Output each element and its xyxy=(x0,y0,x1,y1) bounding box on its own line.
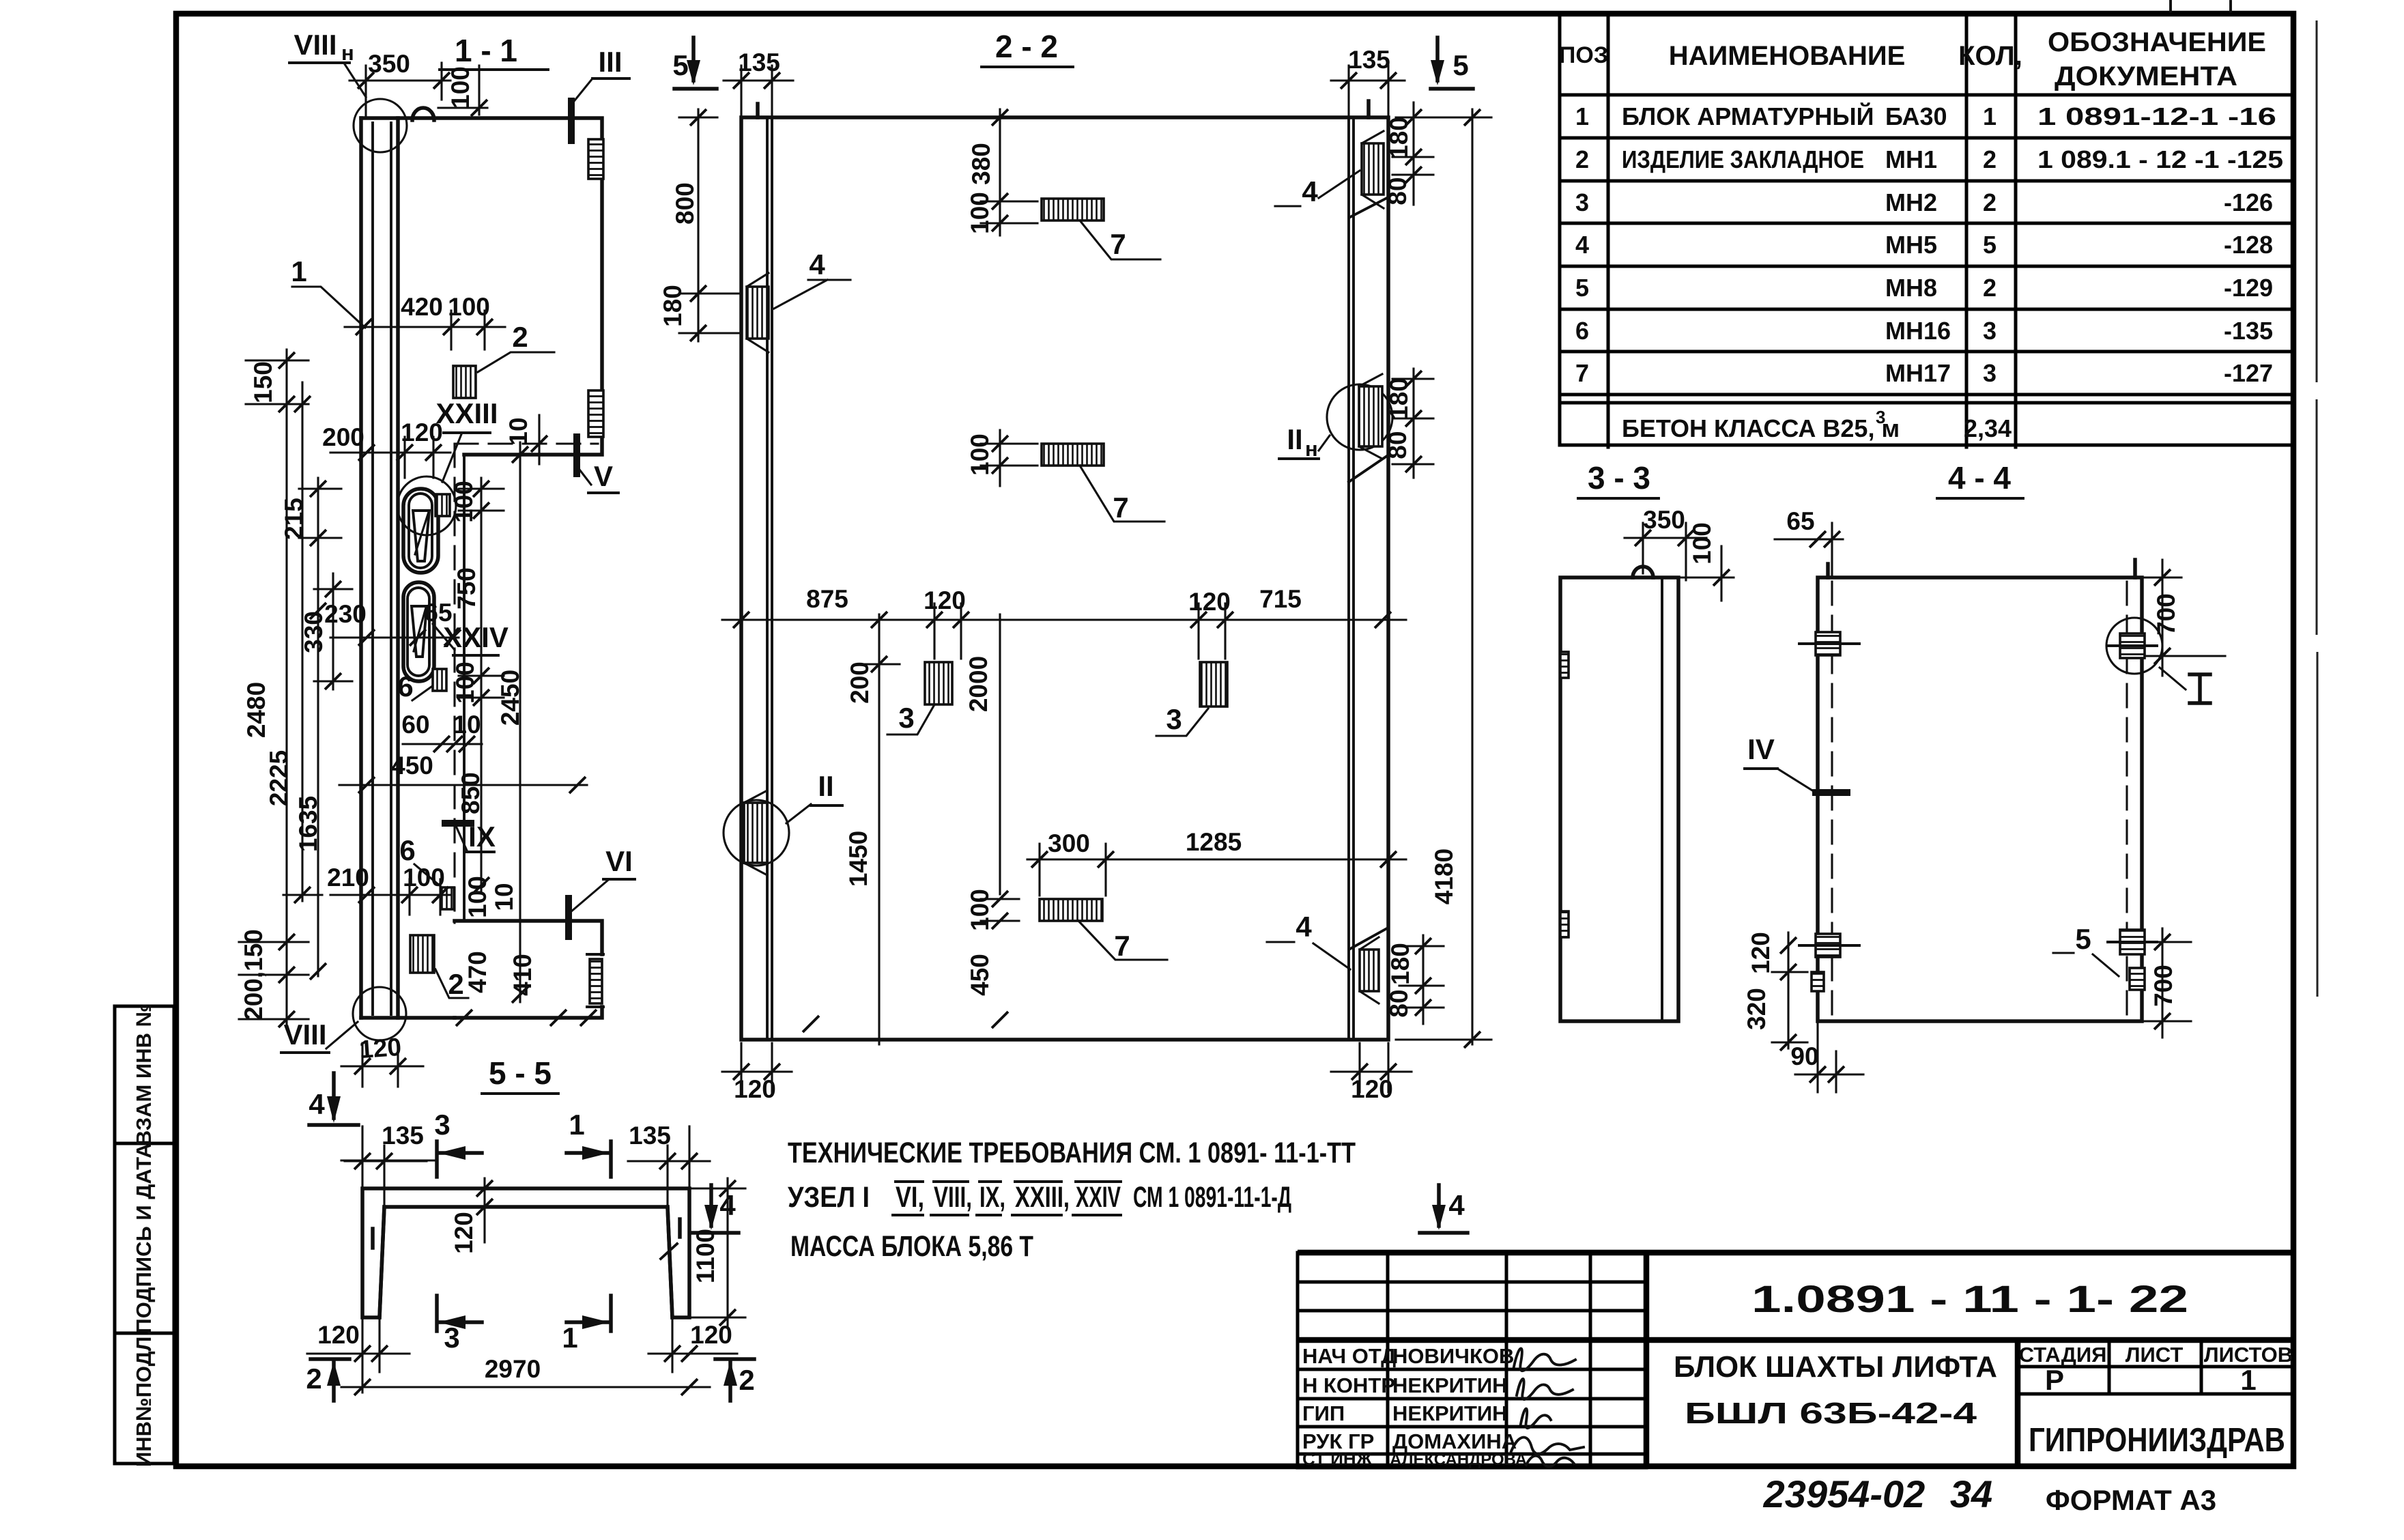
right chain 180 80 top xyxy=(1412,102,1414,205)
svg-text:850: 850 xyxy=(457,772,485,814)
hatch block 4 left xyxy=(747,287,769,339)
svg-text:ЛИСТОВ: ЛИСТОВ xyxy=(2204,1343,2293,1367)
svg-text:800: 800 xyxy=(671,182,699,225)
svg-text:2 - 2: 2 - 2 xyxy=(995,29,1058,64)
svg-text:5: 5 xyxy=(1575,274,1589,302)
dim line 875 120 | 120 715 xyxy=(722,618,1406,621)
row line 3 xyxy=(1560,222,2293,225)
svg-text:II: II xyxy=(818,770,833,802)
svg-text:БЛОК АРМАТУРНЫЙ: БЛОК АРМАТУРНЫЙ xyxy=(1622,102,1874,130)
detail circle XXIII xyxy=(397,476,456,535)
svg-text:МН8: МН8 xyxy=(1885,274,1937,302)
svg-text:АЛЕКСАНДРОВА: АЛЕКСАНДРОВА xyxy=(1390,1451,1527,1469)
svg-text:90: 90 xyxy=(1790,1042,1818,1070)
svg-text:1100: 1100 xyxy=(691,1229,719,1283)
bottom left chain 120 320 xyxy=(1787,932,1789,1049)
svg-text:4: 4 xyxy=(809,248,825,281)
leader VIII xyxy=(326,1022,358,1049)
svg-text:2: 2 xyxy=(448,968,463,1000)
svg-text:БА30: БА30 xyxy=(1885,102,1947,130)
label III underline xyxy=(592,77,629,80)
svg-text:100: 100 xyxy=(450,481,478,523)
dim 200 rot xyxy=(878,614,880,1044)
svg-text:5 - 5: 5 - 5 xyxy=(489,1055,552,1091)
wall column inner lines xyxy=(373,123,391,1014)
svg-text:2,34: 2,34 xyxy=(1964,414,2012,442)
sig row e xyxy=(1298,1397,1646,1401)
svg-text:3: 3 xyxy=(1983,359,1997,387)
svg-text:100: 100 xyxy=(966,192,994,234)
svg-text:1285: 1285 xyxy=(1186,828,1242,856)
header bottom line xyxy=(1560,94,2293,97)
svg-text:1: 1 xyxy=(1983,102,1997,130)
right leg plate tick xyxy=(678,1219,682,1237)
far right chain 4180 xyxy=(1471,109,1473,1044)
svg-text:II: II xyxy=(1287,423,1302,455)
svg-text:2225: 2225 xyxy=(265,750,293,806)
right chain 180 80 bottom xyxy=(1422,935,1424,1024)
svg-text:120: 120 xyxy=(1747,932,1775,974)
3-3 panel outline xyxy=(1560,577,1678,1021)
row line 1 xyxy=(1560,137,2293,140)
leader XXIII xyxy=(442,434,461,482)
svg-text:СТАДИЯ: СТАДИЯ xyxy=(2019,1343,2107,1367)
svg-text:150: 150 xyxy=(249,361,277,403)
left leg plate tick xyxy=(371,1229,375,1248)
svg-text:100: 100 xyxy=(446,66,474,109)
svg-text:750: 750 xyxy=(453,567,481,610)
top chain 380 100 xyxy=(999,109,1001,236)
4-4 plate right top xyxy=(2120,633,2145,658)
left dim chain line C 1635 / 215 xyxy=(317,478,319,976)
svg-text:ВЗАМ ИНВ №: ВЗАМ ИНВ № xyxy=(132,1003,156,1145)
bottom flange outline xyxy=(455,921,602,1018)
oval slot XXIV xyxy=(403,582,434,681)
lifting loop top xyxy=(412,108,434,120)
hatch block 7 bottom xyxy=(1040,899,1102,921)
leader VIIIн xyxy=(345,64,366,97)
svg-text:КОЛ,: КОЛ, xyxy=(1958,41,2022,71)
sig row a xyxy=(1298,1281,1646,1284)
листов col line xyxy=(2200,1340,2203,1394)
svg-text:1: 1 xyxy=(291,255,306,287)
svg-text:НЕКРИТИН: НЕКРИТИН xyxy=(1392,1373,1508,1397)
svg-text:1 089.1 - 12 -1 -125: 1 089.1 - 12 -1 -125 xyxy=(2037,145,2283,173)
лист col line xyxy=(2108,1340,2111,1394)
sig table left edge xyxy=(1296,1253,1300,1468)
svg-text:ТЕХНИЧЕСКИЕ ТРЕБОВАНИЯ СМ. 1: ТЕХНИЧЕСКИЕ ТРЕБОВАНИЯ СМ. 1 0891- 11-1-… xyxy=(788,1137,1356,1169)
svg-text:4180: 4180 xyxy=(1430,849,1458,904)
row line 8 xyxy=(1560,401,2293,405)
svg-text:IV: IV xyxy=(1747,733,1775,765)
svg-text:5: 5 xyxy=(2075,923,2091,955)
svg-text:3: 3 xyxy=(1575,188,1589,216)
svg-text:4: 4 xyxy=(1302,175,1318,208)
svg-text:4: 4 xyxy=(309,1088,325,1120)
VI section tick xyxy=(565,898,572,937)
svg-text:3: 3 xyxy=(1983,317,1997,345)
svg-text:6: 6 xyxy=(399,834,415,866)
svg-text:4: 4 xyxy=(1448,1189,1465,1221)
wall column bottom edge xyxy=(361,1016,455,1020)
svg-text:ОБОЗНАЧЕНИЕ: ОБОЗНАЧЕНИЕ xyxy=(2048,27,2266,57)
3-3 lifting loop xyxy=(1633,567,1653,577)
top flange bottom hidden edge xyxy=(455,442,598,444)
svg-text:180: 180 xyxy=(1386,943,1414,985)
sig row f xyxy=(1298,1425,1646,1429)
svg-text:3: 3 xyxy=(1876,407,1885,427)
hatch plate right top xyxy=(588,139,603,179)
rebar tick top left xyxy=(756,104,760,117)
hatch block 7 top xyxy=(1042,199,1104,220)
svg-text:XXIV: XXIV xyxy=(1076,1181,1121,1214)
svg-text:2480: 2480 xyxy=(242,682,270,738)
hatch block 3 left xyxy=(925,662,952,704)
svg-text:-128: -128 xyxy=(2224,231,2273,259)
rebar tick top left xyxy=(1826,564,1830,577)
ext ticks chain A xyxy=(239,360,309,1019)
svg-text:200: 200 xyxy=(322,423,364,451)
svg-text:1: 1 xyxy=(562,1322,577,1354)
svg-text:2: 2 xyxy=(1575,145,1589,173)
title underline xyxy=(440,68,548,71)
svg-text:МН17: МН17 xyxy=(1885,359,1951,387)
svg-text:VIII,: VIII, xyxy=(934,1181,972,1214)
left dim chain line D 330 xyxy=(332,573,334,689)
svg-text:80: 80 xyxy=(1384,431,1412,459)
oval slot XXIII xyxy=(403,489,438,573)
svg-text:2: 2 xyxy=(1983,145,1997,173)
svg-text:60: 60 xyxy=(401,711,429,739)
svg-text:230: 230 xyxy=(324,600,367,628)
4-4 plate right bottom block 5 xyxy=(2120,930,2145,954)
svg-text:ДОКУМЕНТА: ДОКУМЕНТА xyxy=(2055,61,2237,91)
marker 2 up left xyxy=(311,1357,349,1361)
svg-text:80: 80 xyxy=(1384,177,1412,205)
svg-text:5: 5 xyxy=(1983,231,1997,259)
svg-text:ИЗДЕЛИЕ ЗАКЛАДНОЕ: ИЗДЕЛИЕ ЗАКЛАДНОЕ xyxy=(1622,145,1864,173)
svg-text:5: 5 xyxy=(1453,49,1468,81)
col line ПОЗ xyxy=(1607,14,1610,447)
sig table bottom xyxy=(1298,1466,1646,1470)
signature squiggle 2 xyxy=(1517,1379,1573,1399)
svg-text:7: 7 xyxy=(1575,359,1589,387)
bottom flange notch steps xyxy=(587,954,603,1007)
svg-text:2000: 2000 xyxy=(964,656,992,712)
svg-text:4: 4 xyxy=(1296,911,1312,943)
svg-text:-126: -126 xyxy=(2224,188,2273,216)
right dim chain line x762 2450 xyxy=(519,442,521,1002)
svg-text:320: 320 xyxy=(1743,988,1771,1030)
svg-text:ФОРМАТ А3: ФОРМАТ А3 xyxy=(2046,1484,2216,1516)
label VIII underline xyxy=(281,1051,329,1054)
hatch block IIн xyxy=(1359,386,1382,446)
hatch block II xyxy=(744,803,767,863)
right dim chain line x705 xyxy=(480,478,482,893)
hatch plate right mid xyxy=(588,390,603,437)
leader V xyxy=(577,467,591,485)
leader XXIV xyxy=(433,624,455,650)
row line 6 xyxy=(1560,350,2293,354)
hatch block 4 right bottom xyxy=(1360,950,1379,991)
svg-text:VI: VI xyxy=(605,845,633,877)
svg-text:2: 2 xyxy=(306,1363,321,1395)
4-4 small plate left lower xyxy=(1812,972,1824,991)
svg-text:450: 450 xyxy=(391,752,433,780)
chain 100 450 bottom mid xyxy=(992,891,1008,907)
4-4 small plate right lower xyxy=(2130,968,2145,990)
sig col 3 xyxy=(1505,1253,1508,1468)
svg-text:180: 180 xyxy=(659,285,687,327)
row line 4 xyxy=(1560,265,2293,268)
svg-text:МН1: МН1 xyxy=(1885,145,1937,173)
svg-text:3: 3 xyxy=(434,1109,450,1141)
svg-text:1: 1 xyxy=(1575,102,1589,130)
left dim chain line B 2225 xyxy=(301,382,303,901)
svg-text:VIII: VIII xyxy=(294,29,337,61)
svg-text:100: 100 xyxy=(966,433,994,476)
svg-text:65: 65 xyxy=(424,599,452,627)
stem solid edge xyxy=(463,455,466,921)
stray tick bottom left xyxy=(803,1016,819,1032)
svg-text:210: 210 xyxy=(327,864,369,892)
paper fold tick top 2 xyxy=(2229,1,2232,14)
svg-text:XXIII: XXIII xyxy=(435,397,498,429)
left column inner lines xyxy=(767,120,772,1037)
svg-text:410: 410 xyxy=(509,954,536,996)
svg-text:34: 34 xyxy=(1950,1472,1992,1515)
svg-text:4 - 4: 4 - 4 xyxy=(1948,460,2011,496)
svg-text:МН2: МН2 xyxy=(1885,188,1937,216)
3-3 inner edge line xyxy=(1661,577,1663,1021)
svg-text:10: 10 xyxy=(504,417,532,445)
hatch block 7 mid xyxy=(1042,444,1104,466)
svg-text:100: 100 xyxy=(451,661,479,704)
svg-text:180: 180 xyxy=(1385,117,1413,159)
svg-text:120: 120 xyxy=(317,1321,360,1349)
svg-text:80: 80 xyxy=(1385,989,1413,1017)
svg-text:БЕТОН КЛАССА В25, м: БЕТОН КЛАССА В25, м xyxy=(1622,414,1900,442)
svg-text:120: 120 xyxy=(734,1075,776,1103)
dim 2000 rot xyxy=(999,614,1001,894)
hatch block 2 bottom xyxy=(410,935,434,973)
svg-text:Н КОНТР: Н КОНТР xyxy=(1302,1373,1395,1397)
note line 2 overlines xyxy=(896,1180,1121,1183)
svg-text:4: 4 xyxy=(1575,231,1589,259)
sig row d xyxy=(1298,1368,1646,1371)
svg-text:ПОЗ: ПОЗ xyxy=(1559,42,1608,68)
svg-text:ЛИСТ: ЛИСТ xyxy=(2126,1343,2184,1367)
wall column outline xyxy=(361,118,398,1018)
svg-text:450: 450 xyxy=(966,954,994,996)
dim 700 bottom rot xyxy=(2161,928,2163,1038)
stadia values underline xyxy=(2018,1393,2293,1396)
detail circle VIII bottom xyxy=(353,987,406,1040)
svg-text:420: 420 xyxy=(401,293,443,321)
svg-text:БЛОК ШАХТЫ ЛИФТА: БЛОК ШАХТЫ ЛИФТА xyxy=(1674,1350,1997,1384)
svg-text:н: н xyxy=(341,41,354,65)
paper fold tick top xyxy=(2169,0,2172,12)
signature squiggle 5 xyxy=(1526,1456,1574,1467)
marker 2 up right xyxy=(715,1357,754,1361)
svg-text:1 0891-12-1 -16: 1 0891-12-1 -16 xyxy=(2037,102,2276,130)
svg-text:ИНВ№ПОДЛ.: ИНВ№ПОДЛ. xyxy=(132,1330,156,1467)
hatch block 4 right top xyxy=(1362,143,1384,195)
svg-text:215: 215 xyxy=(280,498,308,540)
sig col 4 xyxy=(1589,1253,1592,1468)
U channel outline xyxy=(362,1188,689,1317)
svg-text:1 - 1: 1 - 1 xyxy=(455,33,517,68)
svg-text:-135: -135 xyxy=(2224,317,2273,345)
4-4 dashed line right xyxy=(2126,582,2128,1018)
svg-text:ПОДПИСЬ И ДАТА: ПОДПИСЬ И ДАТА xyxy=(132,1143,156,1333)
signature squiggle 1 xyxy=(1514,1348,1575,1371)
svg-text:200: 200 xyxy=(846,661,874,704)
row line 5 xyxy=(1560,308,2293,311)
hatch plate bottom flange xyxy=(590,959,602,1003)
svg-text:НАИМЕНОВАНИЕ: НАИМЕНОВАНИЕ xyxy=(1669,41,1906,71)
svg-text:6: 6 xyxy=(1575,317,1589,345)
hatch block 3 right xyxy=(1200,662,1227,707)
svg-text:н: н xyxy=(1305,437,1318,461)
svg-text:1: 1 xyxy=(569,1109,584,1141)
svg-text:V: V xyxy=(594,460,613,492)
svg-text:10: 10 xyxy=(490,883,518,911)
svg-text:23954-02: 23954-02 xyxy=(1763,1472,1926,1515)
svg-text:330: 330 xyxy=(300,611,328,653)
stadia header underline xyxy=(2018,1365,2293,1369)
svg-text:2: 2 xyxy=(1983,274,1997,302)
svg-text:МН16: МН16 xyxy=(1885,317,1951,345)
svg-text:7: 7 xyxy=(1114,930,1130,962)
svg-text:10: 10 xyxy=(453,711,481,739)
left dim chain line A xyxy=(285,350,287,1025)
svg-text:3 - 3: 3 - 3 xyxy=(1588,460,1650,496)
svg-text:7: 7 xyxy=(1110,228,1126,260)
4-4 plate left top xyxy=(1816,632,1840,655)
svg-text:2970: 2970 xyxy=(485,1355,541,1383)
hatch block right of oval1 xyxy=(435,494,450,516)
svg-text:СМ 1 0891-11-1-Д: СМ 1 0891-11-1-Д xyxy=(1133,1181,1291,1214)
svg-text:135: 135 xyxy=(629,1122,671,1150)
svg-text:МН5: МН5 xyxy=(1885,231,1937,259)
svg-text:VI,: VI, xyxy=(896,1181,924,1214)
label VIIIн underline xyxy=(289,61,349,64)
IX section tick xyxy=(445,820,471,827)
svg-text:ГИП: ГИП xyxy=(1302,1401,1345,1425)
svg-text:1: 1 xyxy=(2240,1364,2256,1396)
svg-text:380: 380 xyxy=(967,143,995,185)
svg-text:ДОМАХИНА: ДОМАХИНА xyxy=(1392,1429,1517,1453)
svg-text:-129: -129 xyxy=(2224,274,2273,302)
svg-text:875: 875 xyxy=(806,585,848,613)
svg-text:БШЛ 63Б-42-4: БШЛ 63Б-42-4 xyxy=(1685,1397,1977,1430)
left chain 800 180 xyxy=(697,109,699,341)
dim 700 top rot xyxy=(2161,560,2163,676)
svg-text:НОВИЧКОВ: НОВИЧКОВ xyxy=(1392,1344,1514,1368)
col line КОЛ xyxy=(2014,14,2018,447)
panel outline xyxy=(741,117,1388,1040)
title block top line xyxy=(1298,1250,2293,1256)
svg-text:120: 120 xyxy=(358,1033,402,1064)
3-3 edge plate bottom xyxy=(1560,911,1569,937)
svg-text:120: 120 xyxy=(1351,1075,1393,1103)
svg-text:470: 470 xyxy=(463,951,491,993)
mid chain 100 xyxy=(999,430,1001,486)
leader III xyxy=(572,79,592,104)
svg-text:НАЧ ОТД: НАЧ ОТД xyxy=(1302,1344,1396,1368)
svg-text:5: 5 xyxy=(672,49,688,81)
svg-text:2: 2 xyxy=(512,321,528,353)
4-4 panel outline xyxy=(1818,577,2142,1021)
svg-text:6: 6 xyxy=(397,670,413,702)
3-3 edge plate top xyxy=(1560,652,1569,678)
svg-text:700: 700 xyxy=(2149,965,2177,1007)
V section tick xyxy=(573,437,580,474)
label 2 top leader xyxy=(478,352,554,372)
detail circle IIн right xyxy=(1327,384,1392,450)
signature squiggle 4 xyxy=(1511,1438,1584,1454)
stem hidden dashed edge xyxy=(453,444,455,923)
parts table outer box xyxy=(1560,14,2293,445)
svg-text:65: 65 xyxy=(1786,507,1814,535)
svg-text:-127: -127 xyxy=(2224,359,2273,387)
sig row g xyxy=(1298,1453,1646,1456)
svg-text:700: 700 xyxy=(2152,593,2180,636)
right leg diagonal mark xyxy=(661,1244,677,1259)
svg-text:IX,: IX, xyxy=(979,1181,1005,1214)
svg-text:2: 2 xyxy=(1983,188,1997,216)
sidebar divider 1 xyxy=(115,1142,174,1145)
svg-text:НЕКРИТИН: НЕКРИТИН xyxy=(1392,1401,1508,1425)
row line 7 xyxy=(1560,393,2293,397)
svg-text:1.0891 - 11 - 1- 22: 1.0891 - 11 - 1- 22 xyxy=(1751,1277,2188,1320)
left sidebar stamp column xyxy=(115,1006,174,1464)
IV section tick xyxy=(1816,789,1847,796)
right chain 180 80 mid xyxy=(1412,369,1414,478)
hatch block 6 lower xyxy=(441,887,454,909)
row line 2 xyxy=(1560,180,2293,183)
svg-text:IX: IX xyxy=(468,821,496,853)
detail circle II left xyxy=(724,800,789,866)
svg-text:СТ ИНЖ: СТ ИНЖ xyxy=(1302,1449,1373,1469)
svg-text:Р: Р xyxy=(2045,1364,2064,1396)
stadia col line xyxy=(2015,1340,2021,1468)
sig row b xyxy=(1298,1309,1646,1313)
svg-text:3: 3 xyxy=(898,702,914,734)
svg-text:100: 100 xyxy=(966,889,994,931)
hatch block 6 below oval2 xyxy=(433,669,446,691)
svg-text:VIII: VIII xyxy=(283,1018,326,1051)
sig row c / doc band line xyxy=(1298,1337,2293,1343)
svg-text:2450: 2450 xyxy=(496,670,524,726)
hatch block 2 top xyxy=(453,366,476,398)
label I xyxy=(2190,674,2210,703)
leader VI xyxy=(571,881,607,912)
detail circle VIIIн top xyxy=(354,99,407,152)
4-4 dashed line left xyxy=(1831,582,1833,1018)
svg-text:120: 120 xyxy=(924,586,966,614)
scan artifact vertical line right edge xyxy=(2317,20,2317,997)
svg-text:1450: 1450 xyxy=(844,831,872,887)
svg-text:XXIII,: XXIII, xyxy=(1015,1181,1070,1214)
detail circle I xyxy=(2106,618,2162,674)
svg-text:300: 300 xyxy=(1048,829,1090,857)
right column break diagonal bottom xyxy=(1350,928,1387,949)
svg-text:7: 7 xyxy=(1113,491,1128,524)
svg-text:ГИПРОНИИЗДРАВ: ГИПРОНИИЗДРАВ xyxy=(2029,1422,2285,1459)
svg-text:III: III xyxy=(598,46,622,78)
